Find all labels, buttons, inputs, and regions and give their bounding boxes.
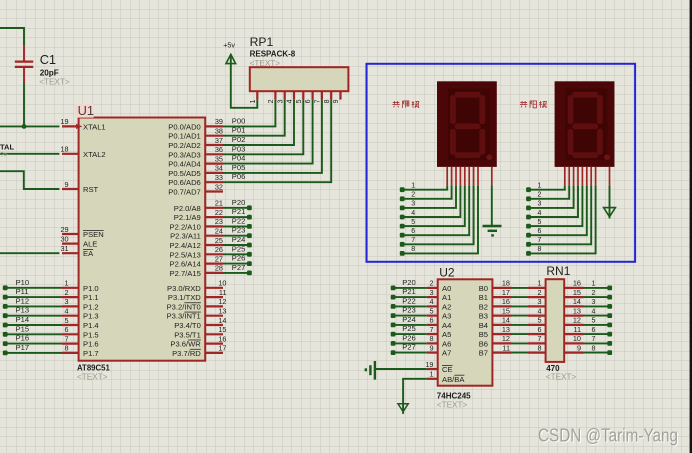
- svg-text:A0: A0: [442, 284, 451, 293]
- U2 pin 18 B0: [479, 279, 512, 293]
- svg-text:25: 25: [215, 236, 223, 245]
- svg-text:1: 1: [250, 99, 257, 103]
- 7-segment display DS1 (common cathode): [437, 81, 497, 167]
- wire P25 to U2 A5: [393, 333, 427, 335]
- svg-text:P10: P10: [16, 278, 30, 287]
- wire P21: [223, 216, 249, 218]
- svg-text:AB/BA: AB/BA: [442, 375, 465, 384]
- svg-text:9: 9: [577, 343, 581, 352]
- svg-text:P2.1/A9: P2.1/A9: [174, 213, 201, 222]
- svg-text:P2.6/A14: P2.6/A14: [170, 260, 201, 269]
- svg-text:P2.5/A13: P2.5/A13: [170, 250, 201, 259]
- svg-text:P0.6/AD6: P0.6/AD6: [168, 178, 201, 187]
- RN1 pin 13: [564, 306, 583, 315]
- pin 32 P0.7/AD7: [168, 182, 223, 196]
- svg-text:30: 30: [60, 234, 68, 243]
- svg-text:B2: B2: [479, 302, 488, 311]
- svg-text:P25: P25: [402, 324, 416, 333]
- svg-text:P12: P12: [16, 296, 30, 305]
- pin arrow XTAL1: [77, 125, 81, 129]
- svg-text:14: 14: [573, 297, 581, 306]
- wire RN1 pin 11: [584, 333, 610, 335]
- svg-text:+5v: +5v: [223, 41, 235, 50]
- svg-text:<TEXT>: <TEXT>: [77, 373, 108, 382]
- svg-text:<TEXT>: <TEXT>: [437, 400, 468, 409]
- DS2 terminal wire 5: [526, 185, 582, 228]
- svg-text:P20: P20: [232, 198, 246, 207]
- svg-text:CSDN @Tarim-Yang: CSDN @Tarim-Yang: [538, 425, 678, 446]
- RN1 pin 7: [528, 334, 546, 343]
- svg-text:13: 13: [502, 325, 510, 334]
- svg-text:P1.4: P1.4: [83, 321, 99, 330]
- wire P25: [223, 253, 249, 255]
- svg-text:RP1: RP1: [250, 35, 274, 49]
- wire P24: [223, 244, 249, 246]
- svg-text:10: 10: [573, 334, 581, 343]
- pin 22 P2.1/A9: [174, 208, 223, 222]
- svg-text:18: 18: [60, 145, 68, 154]
- pin 1 P1.0: [62, 279, 99, 293]
- svg-text:3: 3: [65, 297, 69, 306]
- svg-text:7: 7: [537, 334, 541, 343]
- svg-text:38: 38: [215, 127, 223, 136]
- U2 pin 11 B7: [479, 343, 512, 357]
- svg-text:A5: A5: [442, 330, 451, 339]
- svg-text:?>: ?>: [0, 152, 8, 159]
- svg-text:18: 18: [502, 279, 510, 288]
- svg-text:5: 5: [411, 219, 415, 226]
- RN1 pin 14: [564, 297, 583, 306]
- svg-text:1: 1: [538, 183, 542, 190]
- svg-text:28: 28: [215, 264, 223, 273]
- svg-text:6: 6: [592, 327, 596, 334]
- wire +5v to RP1 pin 1: [231, 55, 257, 108]
- pin 9 RST: [62, 180, 99, 194]
- svg-text:22: 22: [215, 208, 223, 217]
- svg-text:P0.1/AD1: P0.1/AD1: [168, 132, 201, 141]
- svg-text:27: 27: [215, 254, 223, 263]
- pin 33 P0.6/AD6: [168, 173, 223, 187]
- pin 13 P3.3/INT1: [167, 307, 227, 321]
- svg-text:16: 16: [218, 334, 226, 343]
- wire U2 B2 to RN1 pin 3: [512, 305, 529, 307]
- svg-text:P2.0/A8: P2.0/A8: [174, 204, 201, 213]
- svg-text:5: 5: [296, 99, 303, 103]
- watermark CSDN @Tarim-Yang: [538, 425, 679, 447]
- svg-text:4: 4: [538, 210, 542, 217]
- power arrow (down): [604, 208, 616, 217]
- svg-text:7: 7: [592, 336, 596, 343]
- pin 3 P1.2: [62, 297, 99, 311]
- wire U2 B3 to RN1 pin 4: [512, 315, 529, 317]
- RP1 pin 9: [333, 91, 340, 103]
- pin 29 PSEN: [60, 225, 103, 239]
- wire P20: [223, 207, 249, 209]
- IC U2 74HC245 body: [438, 279, 493, 385]
- svg-text:RN1: RN1: [546, 264, 570, 278]
- capacitor C1: [15, 45, 70, 87]
- svg-text:7: 7: [411, 237, 415, 244]
- svg-text:14: 14: [218, 316, 226, 325]
- pin 21 P2.0/A8: [174, 199, 223, 213]
- svg-text:3: 3: [538, 201, 542, 208]
- pin 34 P0.5/AD5: [168, 164, 223, 178]
- svg-text:5: 5: [537, 316, 541, 325]
- window edge (dark strip at right): [690, 0, 692, 453]
- wire RN1 pin 12: [584, 324, 610, 326]
- wire U2 B0 to RN1 pin 1: [512, 287, 529, 289]
- svg-text:16: 16: [502, 297, 510, 306]
- pin 25 P2.4/A12: [170, 236, 223, 250]
- wire RST: [0, 171, 59, 189]
- 7-segment display DS2 (common anode): [555, 81, 615, 167]
- svg-text:19: 19: [60, 117, 68, 126]
- svg-text:XTAL1: XTAL1: [83, 122, 106, 131]
- svg-text:6: 6: [429, 316, 433, 325]
- RP1 pin 6: [305, 91, 312, 103]
- pin 35 P0.4/AD4: [168, 154, 223, 168]
- wire P27 to U2 A7: [393, 352, 427, 354]
- wire U2 B4 to RN1 pin 5: [512, 324, 529, 326]
- DS2 pins (segment stubs): [565, 167, 610, 185]
- wire C1 to XTAL1: [23, 83, 25, 127]
- svg-text:P14: P14: [16, 315, 30, 324]
- U2 pin 1 AB/BA: [427, 370, 466, 384]
- wire P26 to U2 A6: [393, 342, 427, 344]
- DS1 terminal wire 4: [400, 185, 461, 219]
- wire RN1 pin 14: [584, 305, 610, 307]
- RN1 pin 5: [528, 316, 546, 325]
- svg-text:P26: P26: [232, 254, 246, 263]
- svg-text:P16: P16: [16, 334, 30, 343]
- svg-text:P1.7: P1.7: [83, 349, 99, 358]
- pin 7 P1.6: [62, 334, 99, 348]
- wire U2 B5 to RN1 pin 6: [512, 333, 529, 335]
- svg-text:P3.5/T1: P3.5/T1: [174, 330, 201, 339]
- svg-text:P05: P05: [232, 163, 246, 172]
- svg-text:29: 29: [60, 225, 68, 234]
- svg-text:11: 11: [502, 343, 510, 352]
- wire P21 to U2 A1: [393, 296, 427, 298]
- svg-text:1: 1: [592, 281, 596, 288]
- pin 38 P0.1/AD1: [168, 127, 223, 141]
- svg-text:P3.4/T0: P3.4/T0: [174, 321, 201, 330]
- svg-text:7: 7: [429, 325, 433, 334]
- RP1 pin 2: [268, 91, 275, 103]
- svg-text:P06: P06: [232, 172, 246, 181]
- svg-text:2: 2: [429, 279, 433, 288]
- svg-text:P3.2/INT0: P3.2/INT0: [167, 302, 201, 311]
- svg-text:TAL: TAL: [0, 142, 14, 151]
- svg-text:ALE: ALE: [83, 240, 97, 249]
- svg-text:P2.2/A10: P2.2/A10: [170, 222, 201, 231]
- svg-text:P1.6: P1.6: [83, 340, 99, 349]
- DS1 terminal wire 7: [400, 185, 474, 247]
- svg-text:6: 6: [411, 228, 415, 235]
- svg-text:P23: P23: [402, 306, 416, 315]
- svg-text:XTAL2: XTAL2: [83, 150, 106, 159]
- svg-text:8: 8: [324, 99, 331, 103]
- U2 pin 8 A6: [427, 334, 451, 348]
- svg-text:4: 4: [592, 308, 596, 315]
- wire U2 B6 to RN1 pin 7: [512, 342, 529, 344]
- pin 27 P2.6/A14: [170, 254, 223, 268]
- U2 pin 19 CE: [425, 360, 452, 374]
- svg-text:P2.4/A12: P2.4/A12: [170, 241, 201, 250]
- pin 39 P0.0/AD0: [168, 117, 223, 131]
- pin 2 P1.1: [62, 288, 99, 302]
- wire P11: [5, 296, 62, 298]
- svg-text:P1.1: P1.1: [83, 293, 99, 302]
- svg-text:B5: B5: [479, 330, 488, 339]
- pin 18 XTAL2: [60, 145, 105, 159]
- svg-text:PSEN: PSEN: [83, 230, 104, 239]
- U2 pin 17 B1: [479, 288, 512, 302]
- wire P20 to U2 A0: [393, 287, 427, 289]
- svg-text:23: 23: [215, 217, 223, 226]
- svg-text:RST: RST: [83, 185, 99, 194]
- svg-text:P0.4/AD4: P0.4/AD4: [168, 160, 201, 169]
- wire P04 to RP1 pin 6: [223, 100, 313, 164]
- svg-text:7: 7: [315, 99, 322, 103]
- resistor network RN1 body: [546, 279, 565, 362]
- svg-text:P3.6/WR: P3.6/WR: [170, 340, 201, 349]
- pin 37 P0.2/AD2: [168, 136, 223, 150]
- wire P26: [223, 263, 249, 265]
- svg-text:A2: A2: [442, 302, 451, 311]
- svg-text:1: 1: [65, 279, 69, 288]
- RN1 pin 2: [528, 288, 546, 297]
- DS2 terminal wire 8: [526, 185, 596, 256]
- svg-text:13: 13: [218, 307, 226, 316]
- wire P02 to RP1 pin 4: [223, 100, 294, 145]
- RN1 pin 8: [528, 343, 546, 352]
- pin 23 P2.2/A10: [170, 217, 223, 231]
- svg-text:9: 9: [333, 99, 340, 103]
- svg-text:4: 4: [537, 306, 541, 315]
- DS1 terminal wire 1: [400, 185, 447, 192]
- wire P12: [5, 305, 62, 307]
- svg-text:P15: P15: [16, 324, 30, 333]
- svg-text:36: 36: [215, 145, 223, 154]
- svg-text:8: 8: [65, 344, 69, 353]
- svg-text:P22: P22: [402, 296, 416, 305]
- svg-text:1: 1: [429, 370, 433, 379]
- wire DS2 common to power arrow: [609, 185, 611, 218]
- svg-text:2: 2: [537, 288, 541, 297]
- svg-text:P01: P01: [232, 126, 246, 135]
- RN1 pin 10: [564, 334, 583, 343]
- svg-text:5: 5: [429, 306, 433, 315]
- svg-text:A3: A3: [442, 312, 451, 321]
- U2 pin 16 B2: [479, 297, 512, 311]
- svg-text:P13: P13: [16, 306, 30, 315]
- svg-text:P27: P27: [232, 263, 246, 272]
- svg-text:B4: B4: [479, 321, 488, 330]
- svg-text:8: 8: [411, 246, 415, 253]
- svg-text:RESPACK-8: RESPACK-8: [250, 50, 296, 59]
- svg-text:3: 3: [277, 99, 284, 103]
- svg-text:13: 13: [573, 306, 581, 315]
- DS1 terminal wire 3: [400, 185, 456, 210]
- svg-text:P21: P21: [402, 287, 416, 296]
- svg-text:11: 11: [573, 325, 581, 334]
- wire P23 to U2 A3: [393, 315, 427, 317]
- U2 pin 14 B4: [479, 316, 512, 330]
- svg-text:P3.3/INT1: P3.3/INT1: [167, 312, 201, 321]
- wire P17: [5, 352, 62, 354]
- svg-text:16: 16: [573, 279, 581, 288]
- pin 4 P1.3: [62, 307, 99, 321]
- svg-text:31: 31: [60, 244, 68, 253]
- svg-text:8: 8: [592, 345, 596, 352]
- svg-text:35: 35: [215, 154, 223, 163]
- DS2 terminal wire 4: [526, 185, 578, 219]
- svg-text:4: 4: [287, 99, 294, 103]
- svg-text:A7: A7: [442, 349, 451, 358]
- wire XTAL2: [0, 153, 59, 155]
- svg-text:4: 4: [429, 297, 433, 306]
- svg-text:P0.0/AD0: P0.0/AD0: [168, 122, 201, 131]
- pin 16 P3.6/WR: [170, 334, 226, 348]
- svg-text:3: 3: [429, 288, 433, 297]
- U2 pin 7 A5: [427, 325, 451, 339]
- wire P24 to U2 A4: [393, 324, 427, 326]
- svg-text:4: 4: [411, 210, 415, 217]
- RP1 pin 4: [287, 91, 294, 103]
- label 共阳极 (common anode): [520, 101, 547, 108]
- wire P13: [5, 315, 62, 317]
- svg-text:37: 37: [215, 136, 223, 145]
- pin 8 P1.7: [62, 344, 99, 358]
- svg-text:P1.5: P1.5: [83, 330, 99, 339]
- svg-text:P1.3: P1.3: [83, 312, 99, 321]
- RN1 pin 11: [564, 325, 583, 334]
- svg-text:P0.2/AD2: P0.2/AD2: [168, 141, 201, 150]
- svg-text:P27: P27: [402, 343, 416, 352]
- svg-text:B6: B6: [479, 339, 488, 348]
- svg-text:6: 6: [537, 325, 541, 334]
- svg-text:1: 1: [411, 183, 415, 190]
- junction: [22, 124, 27, 129]
- DS2 terminal wire 2: [526, 185, 569, 201]
- U2 pin 6 A4: [427, 316, 451, 330]
- RP1 pin 3: [277, 91, 284, 103]
- svg-text:39: 39: [215, 117, 223, 126]
- pin 30 ALE: [60, 234, 97, 248]
- svg-text:2: 2: [268, 99, 275, 103]
- svg-text:6: 6: [305, 99, 312, 103]
- svg-text:2: 2: [65, 288, 69, 297]
- svg-text:P2.7/A15: P2.7/A15: [170, 269, 201, 278]
- svg-text:9: 9: [65, 180, 69, 189]
- wire P06 to RP1 pin 8: [223, 100, 331, 183]
- wire EA: [0, 252, 59, 254]
- svg-text:P00: P00: [232, 116, 246, 125]
- svg-text:12: 12: [218, 297, 226, 306]
- wire P01 to RP1 pin 3: [223, 100, 285, 136]
- svg-text:2: 2: [592, 290, 596, 297]
- svg-text:15: 15: [573, 288, 581, 297]
- U2 pin 12 B6: [479, 334, 512, 348]
- svg-text:P3.7/RD: P3.7/RD: [172, 349, 201, 358]
- DS1 terminal wire 5: [400, 185, 465, 228]
- svg-text:P11: P11: [16, 287, 29, 296]
- svg-text:33: 33: [215, 173, 223, 182]
- RN1 pin 3: [528, 297, 546, 306]
- svg-text:AT89C51: AT89C51: [77, 364, 110, 373]
- ground: [483, 226, 502, 235]
- svg-text:P25: P25: [232, 244, 246, 253]
- wire CE to ground: [376, 368, 427, 370]
- RN1 pin 12: [564, 316, 583, 325]
- annotation box (blue): [367, 64, 636, 262]
- svg-text:7: 7: [65, 334, 69, 343]
- wire P16: [5, 343, 62, 345]
- svg-text:B3: B3: [479, 312, 488, 321]
- svg-text:9: 9: [429, 343, 433, 352]
- pin 24 P2.3/A11: [170, 227, 223, 241]
- wire P14: [5, 324, 62, 326]
- DS1 pins (segment stubs): [447, 167, 492, 185]
- wire P05 to RP1 pin 7: [223, 100, 322, 173]
- DS2 terminal wire 3: [526, 185, 574, 210]
- svg-text:P1.0: P1.0: [83, 284, 99, 293]
- DS1 terminal wire 6: [400, 185, 469, 237]
- wire RN1 pin 15: [584, 296, 610, 298]
- U2 pin 4 A2: [427, 297, 451, 311]
- svg-text:U2: U2: [439, 265, 455, 279]
- svg-text:12: 12: [573, 316, 581, 325]
- svg-text:34: 34: [215, 164, 223, 173]
- ground (rotated, at CE): [366, 361, 375, 380]
- svg-text:15: 15: [218, 325, 226, 334]
- svg-text:17: 17: [502, 288, 510, 297]
- svg-text:P3.0/RXD: P3.0/RXD: [167, 284, 201, 293]
- pin 31 EA: [60, 244, 94, 258]
- svg-text:P24: P24: [402, 315, 416, 324]
- wire RN1 pin 9: [584, 352, 610, 354]
- svg-text:1: 1: [537, 279, 541, 288]
- wire P10: [5, 287, 62, 289]
- RP1 pin 5: [296, 91, 303, 103]
- svg-text:8: 8: [429, 334, 433, 343]
- RN1 pin 16: [564, 279, 583, 288]
- resistor pack RP1 RESPACK-8 body: [250, 67, 349, 91]
- svg-text:6: 6: [538, 228, 542, 235]
- wire P03 to RP1 pin 5: [223, 100, 303, 155]
- wire RN1 pin 13: [584, 315, 610, 317]
- wire RN1 pin 16: [584, 287, 610, 289]
- svg-text:P23: P23: [232, 226, 246, 235]
- power arrow (down) at AB/BA: [398, 404, 408, 412]
- svg-text:<TEXT>: <TEXT>: [546, 372, 577, 381]
- wire P27: [223, 272, 249, 274]
- RN1 pin 9: [564, 343, 583, 352]
- pin 12 P3.2/INT0: [167, 297, 227, 311]
- pin 17 P3.7/RD: [172, 344, 226, 358]
- svg-text:C1: C1: [40, 52, 56, 67]
- pin 6 P1.5: [62, 325, 99, 339]
- svg-text:3: 3: [537, 297, 541, 306]
- svg-text:4: 4: [65, 307, 69, 316]
- wire U2 B7 to RN1 pin 8: [512, 352, 529, 354]
- RP1 pin 7: [315, 91, 322, 103]
- U1 refdes: [75, 104, 94, 118]
- U2 pin 5 A3: [427, 306, 451, 320]
- DS1 terminal wire 2: [400, 185, 452, 201]
- RP1 pin 1: [250, 91, 257, 103]
